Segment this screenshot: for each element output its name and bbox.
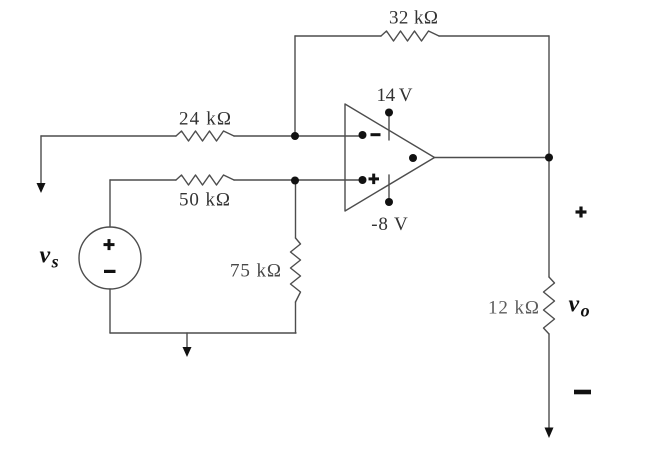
svg-text:32 kΩ: 32 kΩ [389,8,438,29]
svg-text:50 kΩ: 50 kΩ [179,190,230,211]
svg-text:24 kΩ: 24 kΩ [179,109,231,130]
svg-text:12 kΩ: 12 kΩ [488,298,539,319]
svg-text:75 kΩ: 75 kΩ [230,261,281,282]
svg-text:14 V: 14 V [377,85,413,106]
svg-text:-8 V: -8 V [371,214,408,235]
